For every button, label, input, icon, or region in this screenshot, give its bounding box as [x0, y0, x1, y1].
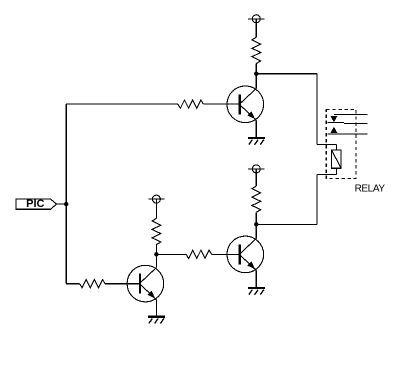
- wire: [317, 143, 337, 145]
- wire: [316, 74, 318, 145]
- relay contact terminal wire: [334, 114, 367, 116]
- wire: [105, 283, 140, 285]
- wire: [335, 144, 337, 150]
- wire: [255, 120, 257, 137]
- ground: [248, 138, 265, 145]
- node J1: [254, 72, 258, 76]
- wire: [156, 253, 186, 255]
- wire: [255, 224, 257, 238]
- wire: [66, 103, 178, 105]
- wire: [255, 74, 257, 89]
- wire: [155, 254, 157, 267]
- relay contact arrow (up): [331, 127, 338, 133]
- node J2: [254, 222, 258, 226]
- relay boundary box: [326, 109, 356, 178]
- wire: [255, 270, 257, 287]
- transistor Q3: [127, 265, 164, 302]
- wire: [317, 173, 337, 175]
- wire: [256, 223, 317, 225]
- wire: [155, 300, 157, 317]
- resistor R3: [252, 186, 261, 212]
- relay contact arrow (down): [331, 116, 338, 122]
- wire: [316, 174, 318, 224]
- ground: [148, 317, 165, 324]
- transistor Q1: [227, 86, 264, 123]
- power VCC P3: [248, 165, 264, 186]
- svg-text:RELAY: RELAY: [355, 184, 386, 195]
- power VCC P2: [148, 195, 164, 218]
- resistor R2: [152, 218, 161, 244]
- resistor R6: [186, 250, 212, 258]
- wire: [65, 104, 67, 284]
- ground: [248, 288, 265, 295]
- node J4: [64, 202, 68, 206]
- wire: [203, 103, 239, 105]
- node PIC: [16, 198, 57, 210]
- wire: [255, 212, 257, 224]
- transistor Q2: [227, 236, 264, 273]
- svg-text:PIC: PIC: [26, 198, 44, 210]
- relay contact terminal wire: [328, 133, 368, 135]
- wire: [212, 253, 240, 255]
- resistor R5: [80, 280, 106, 288]
- wire: [57, 203, 67, 205]
- wire: [256, 73, 317, 75]
- relay coil K1: [332, 150, 342, 168]
- wire: [255, 64, 257, 74]
- relay contact common wire: [328, 123, 368, 124]
- wire: [155, 245, 157, 255]
- node J3: [154, 252, 158, 256]
- wire: [66, 283, 79, 285]
- power VCC P1: [248, 15, 264, 37]
- resistor R1: [252, 37, 261, 63]
- wire: [335, 168, 337, 174]
- resistor R4: [178, 100, 204, 108]
